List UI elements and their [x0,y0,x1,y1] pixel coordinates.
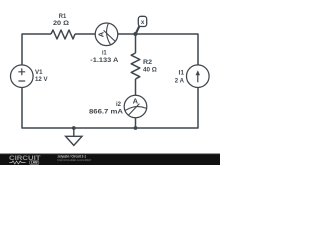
svg-text:LAB: LAB [31,161,38,165]
node junction bottom middle [134,126,138,130]
svg-text:2 A: 2 A [175,77,185,84]
svg-text:40 Ω: 40 Ω [143,67,157,74]
svg-text:A: A [96,31,105,37]
svg-text:A: A [133,96,139,105]
node x flag tail [136,26,140,34]
current source I1 [187,65,210,88]
svg-text:12 V: 12 V [35,76,48,83]
voltage source V1 [10,65,33,88]
node junction ground [72,126,76,130]
svg-text:i2: i2 [116,101,121,108]
svg-text:866.7 mA: 866.7 mA [89,109,123,116]
svg-text:-1.133 A: -1.133 A [90,57,118,64]
wire: outer loop (top, right, bottom, left) [22,34,198,128]
ammeter i2 [124,95,147,118]
svg-text:I1: I1 [179,70,185,77]
svg-text:i1: i1 [102,50,107,57]
wire: middle branch lower [135,79,137,128]
svg-text:20 Ω: 20 Ω [53,20,69,27]
svg-text:R2: R2 [143,59,152,66]
svg-text:http://circuitlab.com/c43brf: http://circuitlab.com/c43brf [58,158,92,162]
svg-text:R1: R1 [59,13,67,20]
svg-text:V1: V1 [35,69,43,76]
resistor R1 [51,30,75,39]
footer bar [0,154,220,166]
wire: middle branch upper [135,34,137,53]
footer logo squiggle [9,161,25,164]
node x flag box [138,16,146,26]
node junction at x [133,32,137,36]
ground [66,128,82,145]
footer logo LAB box [30,161,39,165]
ammeter i1 [95,23,118,46]
resistor R2 [131,53,140,79]
svg-text:x: x [141,19,145,26]
